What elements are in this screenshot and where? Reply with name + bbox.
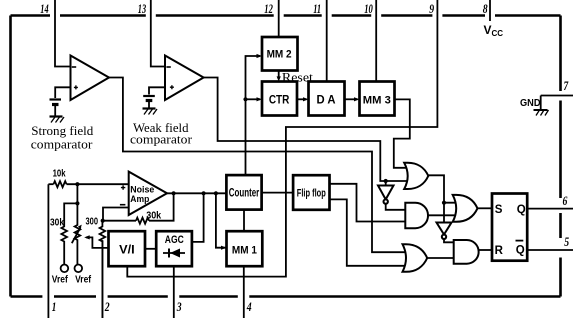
svg-text:Q: Q <box>517 204 526 216</box>
svg-text:30k: 30k <box>146 211 161 222</box>
svg-text:30k: 30k <box>50 218 64 229</box>
svg-text:comparator: comparator <box>130 132 193 147</box>
svg-text:5: 5 <box>564 236 569 250</box>
svg-text:7: 7 <box>564 80 570 94</box>
svg-text:14: 14 <box>40 2 49 16</box>
svg-text:AGC: AGC <box>165 234 184 246</box>
svg-text:GND: GND <box>520 98 541 109</box>
svg-text:MM 3: MM 3 <box>363 95 391 107</box>
svg-text:Q: Q <box>516 245 525 257</box>
svg-text:MM 2: MM 2 <box>267 48 292 60</box>
svg-text:11: 11 <box>313 2 321 16</box>
svg-text:V/I: V/I <box>119 244 135 256</box>
svg-text:CTR: CTR <box>269 95 290 107</box>
svg-text:8: 8 <box>483 3 488 17</box>
svg-text:2: 2 <box>104 301 110 315</box>
svg-text:4: 4 <box>246 301 252 315</box>
svg-text:3: 3 <box>176 301 182 315</box>
svg-text:Reset: Reset <box>282 70 313 85</box>
svg-text:Amp: Amp <box>130 194 149 205</box>
svg-text:D A: D A <box>317 95 336 107</box>
svg-text:6: 6 <box>563 195 568 209</box>
svg-text:Strong field: Strong field <box>31 123 93 138</box>
svg-text:VCC: VCC <box>484 23 504 38</box>
svg-text:300: 300 <box>86 217 99 228</box>
svg-text:12: 12 <box>264 2 273 16</box>
svg-text:Vref: Vref <box>52 274 69 285</box>
svg-text:R: R <box>495 245 504 257</box>
svg-text:Counter: Counter <box>229 188 260 200</box>
svg-text:MM 1: MM 1 <box>232 244 257 256</box>
svg-text:Flip flop: Flip flop <box>297 188 326 200</box>
svg-text:10k: 10k <box>53 168 66 179</box>
svg-text:9: 9 <box>429 3 434 17</box>
svg-text:10: 10 <box>364 2 373 16</box>
svg-text:comparator: comparator <box>31 137 93 152</box>
svg-text:S: S <box>495 204 503 216</box>
svg-text:13: 13 <box>138 2 147 16</box>
svg-text:1: 1 <box>52 301 57 315</box>
svg-text:Vref: Vref <box>75 274 92 285</box>
